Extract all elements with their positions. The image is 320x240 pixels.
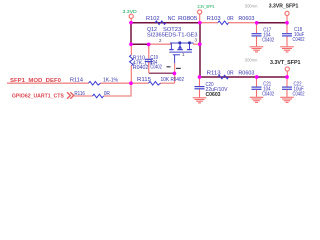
- svg-text:R0402: R0402: [171, 77, 185, 83]
- svg-text:R113: R113: [207, 70, 221, 76]
- svg-text:3.3VT_SFP1: 3.3VT_SFP1: [270, 60, 301, 66]
- wire: bottom rail drain to 3.3VT_SFP1: [200, 76, 288, 78]
- svg-text:R102: R102: [146, 16, 160, 22]
- capacitor C20: [195, 77, 205, 97]
- svg-text:C0402: C0402: [262, 38, 274, 44]
- wire: R114 to junction to R115: [101, 82, 149, 84]
- svg-text:3.3V_SFP1: 3.3V_SFP1: [198, 4, 215, 10]
- svg-text:500mA: 500mA: [245, 4, 258, 9]
- capacitor C18: [282, 23, 292, 46]
- wire: highlighted (salmon) segments: [7, 23, 257, 96]
- wire: R115 to gate riser: [161, 82, 175, 84]
- svg-text:GPIO62_UART1_CTS: GPIO62_UART1_CTS: [12, 94, 64, 100]
- node C19/gate riser: [173, 72, 177, 76]
- svg-text:SI2365EDS-T1-GE3: SI2365EDS-T1-GE3: [147, 33, 198, 39]
- svg-text:C0402: C0402: [150, 65, 162, 71]
- wire: source node to C19 tap: [131, 43, 149, 45]
- node C20 tap: [198, 75, 202, 79]
- resistor R113: [218, 75, 229, 79]
- node 3.3VR_SFP1: [285, 21, 289, 25]
- node 3.3VT_SFP1: [285, 75, 289, 79]
- capacitor C21: [252, 77, 262, 97]
- svg-text:C0402: C0402: [293, 91, 305, 97]
- svg-text:0R: 0R: [104, 91, 111, 97]
- wire: C19 bottom bend to gate riser: [149, 72, 175, 74]
- ground (C21): [250, 97, 264, 102]
- transistor Q12: [169, 43, 193, 63]
- ground (C18): [280, 47, 294, 52]
- ground (C17): [250, 47, 264, 52]
- svg-text:C0402: C0402: [262, 91, 274, 97]
- svg-text:R0603: R0603: [238, 16, 254, 22]
- svg-text:R0603: R0603: [238, 70, 254, 76]
- svg-text:500mA: 500mA: [245, 58, 258, 63]
- svg-text:R0402: R0402: [133, 65, 149, 71]
- wire: junction to R103: [200, 22, 218, 24]
- wire: 3.3VD vertical down to source node: [130, 23, 132, 45]
- svg-text:R116: R116: [74, 91, 85, 97]
- capacitor C19: [145, 45, 153, 73]
- resistor R116: [93, 94, 104, 98]
- svg-text:R103: R103: [207, 16, 221, 22]
- wire: Q12 drain lead: [193, 43, 200, 45]
- resistor R110 (vertical): [130, 55, 134, 66]
- wire: top rail 3.3VD to R102 to junction (maroon): [131, 23, 288, 77]
- node C21 tap: [255, 75, 259, 79]
- junction dots: [129, 21, 289, 85]
- svg-text:0R: 0R: [227, 70, 234, 76]
- wire: R116 corner horizontal: [104, 95, 132, 97]
- node 3.3VD corner: [129, 21, 133, 25]
- node C17 tap: [255, 21, 259, 25]
- port chevron: [67, 92, 74, 98]
- svg-text:R115: R115: [137, 77, 151, 83]
- node drain: [198, 42, 202, 46]
- svg-text:1K-1%: 1K-1%: [103, 78, 118, 84]
- svg-text:1: 1: [182, 52, 185, 57]
- svg-text:NC: NC: [168, 16, 176, 22]
- wire: junction down to R116 corner: [130, 83, 132, 96]
- resistor R103: [218, 21, 229, 25]
- resistor R115: [149, 81, 161, 85]
- resistor R114: [89, 81, 101, 85]
- node source left: [129, 42, 133, 46]
- svg-text:0R: 0R: [227, 16, 234, 22]
- node gate divider: [129, 81, 133, 85]
- wire: top rail junction C17 to C18 end: [257, 22, 288, 24]
- dark dash marks beside C0402 label: [167, 66, 171, 67]
- wire: drain vertical from top rail down to bottom rail: [199, 23, 201, 77]
- svg-text:10K: 10K: [161, 77, 170, 83]
- ground (C20): [193, 98, 207, 103]
- svg-text:2: 2: [159, 38, 162, 43]
- wire: gate riser lower part: [174, 63, 176, 83]
- svg-text:SFP1_MOD_DEF0: SFP1_MOD_DEF0: [10, 78, 61, 84]
- capacitor C17: [252, 23, 262, 46]
- resistor R102: [155, 21, 166, 25]
- node 3.3V_SFP1: [198, 21, 202, 25]
- node C19 tap: [147, 43, 151, 47]
- wire: R103 to C17 junction: [228, 22, 257, 24]
- svg-text:R0805: R0805: [178, 16, 198, 22]
- svg-text:C0603: C0603: [206, 92, 221, 98]
- svg-text:C0402: C0402: [293, 37, 305, 43]
- wire: source lead to Q12: [149, 43, 171, 45]
- svg-text:R114: R114: [70, 78, 83, 84]
- svg-text:3.3VR_SFP1: 3.3VR_SFP1: [269, 4, 299, 10]
- wire: SFP1_MOD_DEF0 to R114: [7, 82, 89, 84]
- ground (C22): [280, 97, 294, 102]
- wire: chevron to R116: [74, 95, 93, 97]
- capacitor C22: [282, 77, 292, 97]
